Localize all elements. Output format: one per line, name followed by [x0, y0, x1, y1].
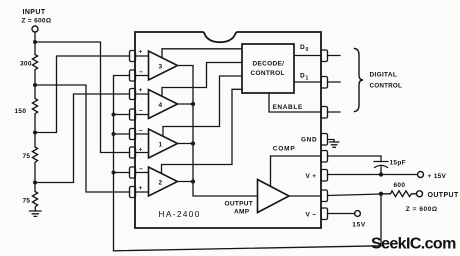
svg-text:AMP: AMP	[234, 209, 250, 216]
svg-text:D: D	[300, 72, 305, 79]
svg-text:150: 150	[15, 108, 27, 115]
svg-text:15pF: 15pF	[390, 160, 406, 167]
node C (tap2 junction)	[33, 131, 37, 135]
wire feedback bottom run to output node	[114, 194, 382, 251]
svg-text:1: 1	[159, 142, 163, 149]
op-amp 3	[136, 49, 178, 81]
pin amp3 -	[130, 70, 136, 81]
svg-text:INPUT: INPUT	[23, 9, 46, 16]
svg-text:0: 0	[306, 47, 309, 53]
resistor 600	[381, 191, 417, 197]
node A (tap0 junction)	[33, 40, 37, 44]
svg-text:4: 4	[159, 102, 163, 109]
svg-text:2: 2	[159, 180, 163, 187]
pin GND	[321, 134, 328, 146]
pin VOUT	[321, 190, 328, 202]
wire tap2 to amp3 + input	[35, 56, 130, 133]
svg-text:3: 3	[159, 64, 163, 71]
pin amp2 -	[130, 167, 136, 178]
wire feedback branch amp1 - input	[114, 133, 130, 135]
svg-text:DECODE/: DECODE/	[253, 61, 285, 68]
op-amp 4	[136, 87, 178, 119]
wire amp2 output stub	[178, 181, 194, 183]
wire input terminal to node A	[34, 32, 36, 42]
wire COMP to capacitor	[328, 156, 382, 162]
terminal OUTPUT	[417, 191, 423, 197]
brace digital control	[355, 49, 364, 112]
resistor 300	[32, 42, 37, 85]
pin V+	[321, 170, 328, 182]
wire ENABLE	[269, 93, 340, 112]
wire amp1 output stub	[178, 143, 194, 145]
svg-text:+: +	[139, 185, 143, 192]
svg-text:−: −	[139, 108, 143, 115]
wire tap0 to amp1 + input	[35, 42, 130, 153]
pin amp3 +	[130, 51, 136, 62]
wire decode control select amp1	[163, 76, 242, 136]
pin COMP	[321, 151, 328, 163]
svg-text:75: 75	[23, 153, 31, 160]
pin V-	[321, 208, 328, 220]
svg-text:+: +	[139, 49, 143, 56]
svg-text:+ 15V: + 15V	[428, 173, 447, 180]
wire feedback branch amp2 - input	[114, 172, 130, 174]
svg-text:DIGITAL: DIGITAL	[370, 72, 398, 79]
node B (tap1 junction)	[33, 83, 37, 87]
node amp4 output	[191, 102, 195, 106]
node capacitor to V+	[379, 172, 383, 176]
svg-text:D: D	[300, 44, 305, 51]
node amp2 output	[191, 179, 195, 183]
wire COMP to output amp	[271, 156, 322, 186]
node feedback amp4	[112, 113, 116, 117]
svg-text:Z = 600Ω: Z = 600Ω	[22, 18, 52, 25]
wire feedback branch amp4 - input	[114, 114, 130, 116]
op-amp 2	[136, 166, 178, 196]
svg-text:GND: GND	[301, 137, 317, 144]
pin amp2 +	[130, 187, 136, 198]
svg-text:OUTPUT: OUTPUT	[225, 201, 254, 208]
ground (GND pin)	[330, 142, 339, 147]
input terminal	[32, 26, 38, 32]
resistor 150	[32, 85, 37, 133]
svg-text:V +: V +	[306, 173, 317, 180]
node D (tap3 junction)	[33, 181, 37, 185]
wire decode control select amp3	[162, 49, 242, 58]
wire amp4 output stub	[178, 103, 194, 105]
svg-text:−: −	[139, 128, 143, 135]
IC block HA-2400 outline	[135, 32, 321, 228]
svg-text:OUTPUT: OUTPUT	[428, 192, 459, 199]
svg-text:COMP: COMP	[273, 145, 296, 152]
node feedback amp2	[112, 171, 116, 175]
wire tap3 to amp4 + input	[35, 94, 130, 183]
terminal 15V	[355, 211, 361, 217]
node output junction	[379, 192, 383, 196]
wire D1	[294, 81, 340, 83]
svg-text:HA-2400: HA-2400	[159, 209, 201, 219]
wire decode control select amp2	[162, 89, 243, 173]
pin amp1 +	[130, 147, 136, 158]
svg-text:V −: V −	[306, 212, 317, 219]
ground (divider)	[30, 211, 42, 216]
svg-text:1: 1	[306, 75, 309, 81]
wire V+ to +15V	[328, 174, 418, 176]
pin D1	[321, 77, 328, 89]
wire V- to 15V terminal	[328, 213, 355, 215]
wire VOUT pin to output node	[328, 194, 382, 196]
wire output amp to VOUT pin	[289, 195, 321, 197]
svg-text:ENABLE: ENABLE	[273, 104, 303, 111]
svg-text:−: −	[139, 69, 143, 76]
svg-text:75: 75	[23, 198, 31, 205]
pin amp4 +	[130, 89, 136, 100]
svg-text:600: 600	[394, 182, 406, 189]
node feedback amp1	[112, 132, 116, 136]
output amp U5	[258, 180, 290, 213]
pin amp4 -	[130, 109, 136, 120]
terminal +15V	[418, 172, 424, 178]
wire decode control select amp4	[162, 63, 242, 97]
pin D0	[321, 50, 328, 62]
svg-text:300: 300	[20, 61, 32, 68]
wire D0	[294, 55, 340, 57]
wire amp3 output to common bus	[178, 66, 258, 197]
svg-text:+: +	[139, 87, 143, 94]
wire feedback to inverting inputs	[114, 76, 130, 251]
resistor 75b	[32, 183, 37, 212]
svg-text:CONTROL: CONTROL	[370, 83, 403, 90]
decode/control box U2	[242, 44, 294, 93]
wire GND to ground	[328, 140, 335, 142]
pin amp1 -	[130, 129, 136, 140]
svg-text:−: −	[139, 166, 143, 173]
wire tap1 to amp2 + input	[35, 85, 130, 192]
svg-text:15V: 15V	[352, 221, 366, 228]
svg-text:+: +	[139, 147, 143, 154]
svg-text:Z = 600Ω: Z = 600Ω	[406, 206, 438, 213]
node amp1 output	[191, 141, 195, 145]
capacitor C1 15pF	[374, 162, 388, 175]
op-amp 1	[136, 128, 178, 159]
pin ENABLE	[321, 107, 328, 119]
svg-text:CONTROL: CONTROL	[251, 70, 285, 77]
svg-text:SeekIC.com: SeekIC.com	[371, 236, 456, 253]
resistor 75a	[32, 133, 37, 183]
